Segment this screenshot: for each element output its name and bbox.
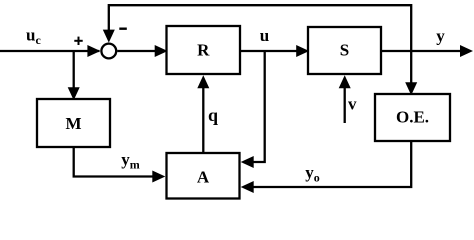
svg-text:yo: yo — [305, 163, 320, 185]
svg-text:y: y — [436, 27, 445, 46]
svg-text:q: q — [208, 105, 218, 125]
svg-text:uc: uc — [26, 25, 41, 47]
svg-text:O.E.: O.E. — [396, 108, 429, 127]
svg-text:A: A — [197, 168, 210, 187]
svg-text:S: S — [340, 41, 349, 60]
svg-text:u: u — [260, 26, 269, 45]
svg-text:R: R — [197, 41, 210, 60]
svg-text:v: v — [348, 95, 357, 114]
svg-text:M: M — [65, 114, 81, 133]
svg-text:ym: ym — [121, 150, 140, 172]
